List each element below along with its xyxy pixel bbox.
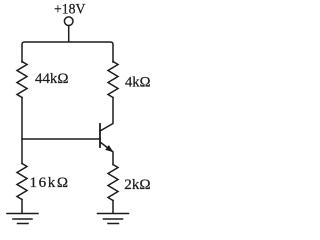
resistor R3 4k zigzag	[108, 62, 118, 98]
svg-text:44kΩ: 44kΩ	[35, 71, 69, 87]
resistor R2 16k zigzag	[17, 164, 27, 200]
svg-text:4kΩ: 4kΩ	[125, 75, 151, 91]
svg-text:2kΩ: 2kΩ	[124, 177, 150, 193]
resistor R1 44k zigzag	[17, 62, 27, 98]
transistor Q1 emitter with wire	[100, 142, 113, 165]
wire R4 bottom to ground	[112, 201, 114, 214]
ground left	[7, 214, 38, 224]
supply terminal circle	[64, 17, 73, 26]
wire R1 bottom to base junction to R2	[21, 98, 23, 164]
emitter arrowhead	[105, 145, 113, 152]
wire base	[22, 138, 100, 140]
svg-text:16kΩ: 16kΩ	[30, 175, 69, 191]
resistor R4 2k zigzag	[108, 165, 118, 201]
ground right	[98, 214, 129, 224]
wire supply to rail	[68, 26, 70, 42]
transistor Q1 bar	[99, 124, 101, 147]
wire top rail	[22, 42, 113, 62]
wire R3 bottom to collector	[100, 98, 113, 132]
wire R2 bottom to ground	[21, 200, 23, 214]
svg-text:+18V: +18V	[54, 1, 86, 17]
